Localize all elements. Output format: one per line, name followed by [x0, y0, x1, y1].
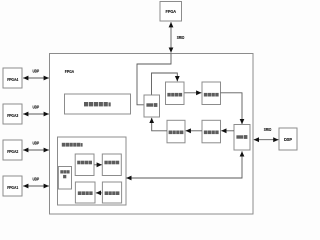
data-pack-3 box (数据打包) [75, 182, 95, 203]
wire data-queue-1 to data-pack-1 (arrow) [185, 92, 202, 94]
wire UDP FPGA4 (double arrow) [23, 77, 49, 79]
wire SRIO-core to data-queue-1 [152, 73, 178, 95]
data-pack-2 box (数据打包) [167, 120, 185, 143]
data-queue-2 box (数据排队) [202, 120, 221, 143]
wire data-parse to data-store-1 (arrow) [94, 164, 102, 166]
wire UDP FPGA2 (double arrow) [23, 149, 49, 151]
svg-text:UDP: UDP [33, 104, 40, 109]
ethernet core box (以太网核) [58, 167, 71, 190]
wire data-pack-1 to SRIO-core-2 [221, 93, 243, 124]
svg-text:SRIO: SRIO [177, 35, 185, 40]
FPGA4 box [3, 68, 22, 88]
svg-text:FPGA: FPGA [166, 9, 177, 15]
svg-text:FPGA: FPGA [65, 69, 75, 74]
svg-text:FPGA4: FPGA4 [7, 77, 18, 82]
wire SRIO link to DSP (double arrow) [254, 139, 279, 141]
title blobs (以太网收发2) [62, 143, 83, 147]
svg-text:UDP: UDP [33, 176, 40, 181]
wire UDP FPGA3 (double arrow) [23, 113, 49, 115]
wire SRIO-core-2 down to ethernet-transceiver-2 (arrow left) [126, 151, 242, 178]
DSP box [279, 128, 297, 150]
svg-text:FPGA1: FPGA1 [7, 185, 18, 190]
data-queue-1 box (数据排队) [166, 82, 185, 105]
wire SRIO link FPGA-top to main box (double arrow) [170, 22, 172, 52]
data-store-2 box (数据存储) [102, 182, 121, 203]
wire data-queue-2 to data-pack-2 (arrow) [186, 130, 202, 132]
FPGA2 box [3, 140, 22, 160]
svg-text:FPGA2: FPGA2 [7, 149, 18, 154]
data-parse box (数据解析) [75, 154, 94, 176]
SRIO core 2 box (SRIO核) [234, 125, 250, 151]
svg-text:FPGA3: FPGA3 [7, 113, 18, 118]
data-pack-1 box (数据打包) [202, 82, 221, 105]
wire data-store-2 to data-pack-3 (arrow) [96, 192, 103, 194]
data-store-1 box (数据存储) [102, 154, 121, 176]
FPGA1 box [3, 176, 22, 196]
FPGA3 box [3, 104, 22, 124]
ethernet-transceiver-1 box (以太网收发1) [65, 94, 131, 114]
FPGA top box [160, 2, 182, 22]
ethernet-transceiver-2 box (以太网收发2) [58, 137, 127, 205]
main FPGA box [50, 54, 254, 215]
wire SRIO-core-2 to data-queue-2 (arrow) [221, 130, 234, 132]
svg-text:SRIO: SRIO [264, 127, 272, 132]
wire data-pack-2 to SRIO-core (arrow up) [152, 118, 167, 131]
svg-text:DSP: DSP [284, 137, 292, 142]
svg-text:UDP: UDP [33, 68, 40, 73]
svg-text:UDP: UDP [33, 140, 40, 145]
SRIO core box (SRIO核) [144, 95, 160, 117]
wire UDP FPGA1 (double arrow) [23, 185, 49, 187]
wire SRIO entry to SRIO-core [137, 54, 171, 105]
